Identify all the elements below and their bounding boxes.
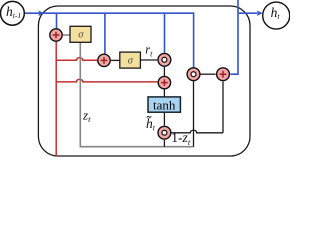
wire: tanh to multiplier2 <box>163 112 165 125</box>
GRU cell outer box <box>38 6 250 156</box>
multiplier M1 (dot) <box>158 53 171 66</box>
adder A2 (+) <box>98 54 110 66</box>
svg-text:σ: σ <box>128 55 134 66</box>
sigma box S1 <box>70 26 91 42</box>
wire: adder4 down leg <box>222 82 224 133</box>
wire: multiplier2 output with hop <box>172 130 224 133</box>
wire: blue drop to adder 1 <box>56 13 58 29</box>
wire: h(t-1) top blue bus <box>25 13 194 67</box>
multiplier M3 (dot) <box>187 68 200 81</box>
arrowhead into box <box>38 10 44 16</box>
wire: blue drop to multiplier 1 <box>164 13 166 53</box>
adder A4 (+) <box>217 68 230 81</box>
wire: multiplier1 to adder3 <box>163 67 165 76</box>
node h(t) output circle <box>263 2 290 29</box>
wire: red branch to adder 3 with hop <box>56 79 157 82</box>
tanh box <box>148 97 180 113</box>
wire: blue drop to adder 2 <box>104 13 106 54</box>
svg-text:tanh: tanh <box>153 97 176 112</box>
arrowhead to h(t) <box>257 10 263 16</box>
wire: h(t) output blue riser <box>230 0 238 74</box>
sigma box S2 <box>120 52 141 68</box>
svg-text:σ: σ <box>78 30 84 41</box>
wire: x(t) red riser <box>55 42 57 157</box>
wire: multiplier2 to z wire <box>163 140 165 147</box>
wire: red branch to adder 2 with hop <box>56 58 97 61</box>
wire: adder3 to tanh <box>163 89 165 96</box>
multiplier M2 (dot) <box>158 126 171 139</box>
wire: sigma2 to multiplier1 <box>141 59 158 61</box>
wire: gray link adder1 to sigma1 <box>63 34 70 36</box>
wire: multiplier3 to adder4 <box>200 73 215 75</box>
wire: blue arrow to h(t) <box>238 12 258 14</box>
adder A3 (+) <box>158 76 170 88</box>
wire: riser into multiplier3 <box>193 81 195 146</box>
node h(t-1) input circle <box>1 1 25 25</box>
wire: gray z(t) line down and right <box>80 42 193 146</box>
adder A1 (+) <box>50 29 62 41</box>
wire: adder2 to sigma2 <box>111 59 120 61</box>
